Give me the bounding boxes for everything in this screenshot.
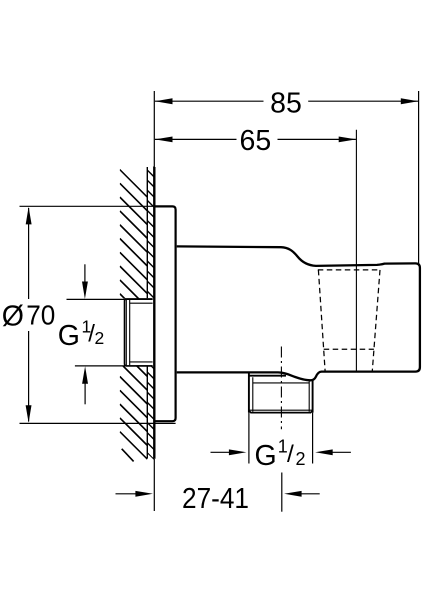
- svg-text:65: 65: [240, 125, 272, 157]
- svg-text:85: 85: [270, 87, 302, 119]
- svg-text:/: /: [287, 441, 294, 468]
- holder cone left side (hidden): [318, 270, 325, 371]
- 27-41 left extension (wall face below): [153, 459, 155, 511]
- 65 dimension line: [155, 138, 356, 140]
- wall hatch stray stroke: [122, 449, 134, 462]
- svg-text:2: 2: [95, 328, 105, 348]
- wall hatch fine strip lower: [147, 160, 154, 470]
- outlet top edge: [249, 375, 286, 377]
- 27-41 right extension: [281, 473, 283, 512]
- svg-text:70: 70: [26, 299, 55, 330]
- svg-text:Ø: Ø: [2, 300, 24, 332]
- wall hatch upper coarse: [120, 170, 148, 501]
- socket left chamfer lines: [126, 300, 129, 366]
- D70 top extension line: [20, 205, 156, 207]
- svg-text:G: G: [255, 440, 277, 472]
- outlet right edge: [312, 380, 314, 413]
- D70 bottom arrowhead: [26, 405, 32, 423]
- G1/2 upper arrow: [84, 264, 86, 283]
- holder centerline / 65 extension: [355, 130, 357, 371]
- wall face line: [153, 167, 155, 459]
- 85 left arrowhead: [155, 98, 173, 104]
- wall inner line: [146, 167, 148, 459]
- outlet bottom edge: [249, 411, 313, 413]
- thread top extension line: [67, 298, 153, 300]
- escutcheon flange: [154, 206, 175, 421]
- svg-text:G: G: [58, 320, 80, 352]
- D70 dimension line: [28, 208, 30, 422]
- 85 dim left extension line (wall face above): [153, 91, 155, 167]
- D70 top arrowhead: [26, 207, 32, 225]
- svg-text:27-41: 27-41: [182, 483, 249, 515]
- 27-41 right arrow: [301, 493, 320, 495]
- 65 right arrowhead: [339, 137, 357, 143]
- outlet left edge: [248, 372, 250, 412]
- 27-41 left arrow: [116, 493, 138, 495]
- svg-text:2: 2: [296, 449, 306, 469]
- socket inner thread lines: [129, 303, 152, 362]
- G1/2 lower arrow: [84, 383, 86, 404]
- outlet G1/2 left arrow: [211, 451, 232, 453]
- 85 dim right extension line: [418, 91, 420, 264]
- holder cone top (hidden): [318, 269, 381, 271]
- 65 left arrowhead: [155, 137, 173, 143]
- wall hatch lower coarse: [120, 170, 148, 501]
- thread bottom extension line: [75, 365, 153, 367]
- 85 right arrowhead: [401, 98, 419, 104]
- outlet extension lines: [249, 413, 313, 464]
- outlet thread inner lines: [249, 377, 313, 412]
- outlet G1/2 right arrow: [332, 451, 351, 453]
- G1/2 inlet socket outline: [125, 299, 153, 366]
- D70 bottom extension line: [20, 422, 176, 424]
- holder cone right side (hidden): [372, 270, 380, 371]
- 85 dimension line: [155, 100, 418, 102]
- body outline: [177, 246, 420, 380]
- wall hatch fine strip upper: [147, 160, 154, 470]
- outlet centerline: [280, 347, 282, 430]
- holder cone cross line (hidden): [324, 348, 374, 350]
